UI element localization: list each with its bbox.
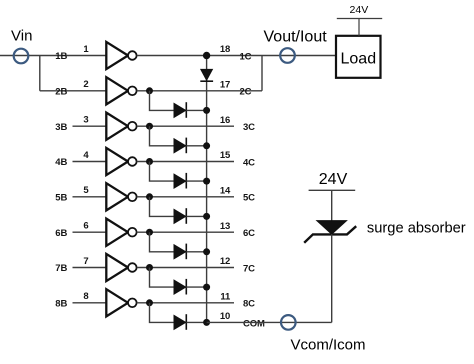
svg-text:8C: 8C — [243, 299, 255, 310]
svg-text:2: 2 — [83, 79, 88, 90]
wire COM bus vertical — [206, 56, 208, 323]
inverter buffer channel 1 triangle — [106, 42, 128, 69]
svg-text:COM: COM — [243, 319, 265, 330]
svg-text:1: 1 — [83, 44, 89, 55]
wire stub channel 8 down to clamp diode — [150, 303, 175, 323]
surge absorber TVS bar with bent ends — [304, 226, 356, 243]
junction dot channel 5 output — [146, 193, 153, 200]
svg-text:17: 17 — [220, 79, 230, 90]
svg-text:5: 5 — [83, 185, 89, 196]
inverter channel 4 output bubble — [128, 157, 137, 166]
wire diode D4 cathode to bus — [186, 180, 206, 182]
wire stub channel 3 down to clamp diode — [150, 126, 175, 146]
wire 8B input — [73, 302, 107, 304]
wire 24V rail to surge absorber — [331, 190, 333, 221]
wire 6C output row — [137, 231, 234, 233]
inverter buffer channel 4 triangle — [106, 148, 128, 175]
wire diode D5 cathode to bus — [186, 215, 206, 217]
wire 2C output row — [137, 90, 262, 92]
inverter buffer channel 5 triangle — [106, 183, 128, 210]
diode D6 clamp channel 6 — [174, 245, 186, 259]
inverter channel 5 output bubble — [128, 193, 137, 202]
junction dot diode D2 at COM bus — [203, 107, 210, 114]
junction dot diode D5 at COM bus — [203, 213, 210, 220]
junction dot channel 7 output — [146, 264, 153, 271]
junction dot diode D8 at COM bus — [203, 319, 210, 326]
svg-text:2C: 2C — [240, 87, 252, 98]
junction dot diode D7 at COM bus — [203, 284, 210, 291]
svg-text:3B: 3B — [55, 122, 67, 133]
svg-text:8B: 8B — [55, 298, 67, 309]
svg-text:4B: 4B — [55, 157, 67, 168]
inverter buffer channel 7 triangle — [106, 254, 128, 281]
surge absorber TVS triangle — [317, 221, 347, 235]
diode D4 clamp channel 4 — [174, 174, 186, 188]
svg-text:6: 6 — [83, 221, 88, 232]
svg-text:4: 4 — [83, 150, 89, 161]
wire stub channel 4 down to clamp diode — [150, 162, 175, 182]
svg-text:13: 13 — [220, 221, 230, 232]
svg-text:3C: 3C — [243, 122, 255, 133]
wire stub channel 6 down to clamp diode — [150, 232, 175, 252]
power rail 24V top bar — [337, 18, 382, 20]
svg-text:Vout/Iout: Vout/Iout — [264, 28, 328, 45]
svg-text:8: 8 — [83, 291, 88, 302]
svg-text:Vin: Vin — [11, 28, 32, 45]
wire Vin input to 1B — [0, 55, 107, 57]
wire diode D2 cathode to bus — [186, 109, 206, 111]
svg-text:5B: 5B — [55, 192, 67, 203]
junction dot channel 8 output — [146, 299, 153, 306]
svg-text:24V: 24V — [350, 4, 369, 16]
svg-text:18: 18 — [220, 44, 230, 55]
wire 5C output row — [137, 196, 234, 198]
diode D3 clamp channel 3 — [174, 139, 186, 153]
wire 3C output row — [137, 125, 234, 127]
junction dot channel 2 output — [146, 87, 153, 94]
svg-text:3: 3 — [83, 115, 88, 126]
wire 24V rail to load — [358, 19, 360, 36]
wire diode D8 cathode to bus — [186, 321, 206, 323]
svg-text:7: 7 — [83, 256, 88, 267]
junction dot diode D3 at COM bus — [203, 142, 210, 149]
svg-text:surge absorber: surge absorber — [367, 221, 466, 237]
junction dot diode D6 at COM bus — [203, 248, 210, 255]
svg-text:6B: 6B — [55, 228, 67, 239]
power rail 24V bottom bar — [309, 189, 356, 191]
diode D8 clamp channel 8 — [174, 315, 186, 329]
wire diode D7 cathode to bus — [186, 286, 206, 288]
svg-text:6C: 6C — [243, 228, 255, 239]
diode D7 clamp channel 7 — [174, 280, 186, 294]
junction dot channel 3 output — [146, 123, 153, 130]
svg-text:24V: 24V — [319, 171, 348, 188]
svg-text:11: 11 — [220, 291, 231, 302]
inverter buffer channel 8 triangle — [106, 289, 128, 316]
wire 4C output row — [137, 161, 234, 163]
wire 6B input — [73, 231, 107, 233]
inverter buffer channel 3 triangle — [106, 113, 128, 140]
junction dot channel 6 output — [146, 229, 153, 236]
inverter channel 7 output bubble — [128, 263, 137, 272]
node Vin terminal circle — [14, 49, 29, 64]
svg-text:4C: 4C — [243, 157, 255, 168]
inverter channel 3 output bubble — [128, 122, 137, 131]
diode D2 clamp channel 2 — [174, 103, 186, 117]
wire 5B input — [73, 196, 107, 198]
svg-text:7C: 7C — [243, 263, 255, 274]
svg-text:5C: 5C — [243, 193, 255, 204]
node Vcom terminal circle — [281, 315, 296, 330]
inverter buffer channel 6 triangle — [106, 219, 128, 246]
svg-text:16: 16 — [220, 115, 230, 126]
diode D5 clamp channel 5 — [174, 209, 186, 223]
svg-text:15: 15 — [220, 150, 231, 161]
wire diode D3 cathode to bus — [186, 145, 206, 147]
node Vout terminal circle — [280, 48, 295, 63]
wire stub channel 5 down to clamp diode — [150, 197, 175, 217]
junction dot channel 4 output — [146, 158, 153, 165]
svg-text:Load: Load — [341, 51, 377, 68]
wire 4B input — [73, 161, 107, 163]
load box — [336, 36, 381, 78]
wire diode D6 cathode to bus — [186, 251, 206, 253]
wire 8C output row — [137, 302, 234, 304]
wire COM row — [207, 321, 332, 323]
svg-text:1C: 1C — [240, 51, 252, 62]
wire connector 1C to 2C parallel outputs — [261, 56, 263, 91]
inverter channel 8 output bubble — [128, 299, 137, 308]
svg-text:Vcom/Icom: Vcom/Icom — [291, 336, 366, 353]
inverter channel 2 output bubble — [128, 87, 137, 96]
svg-text:2B: 2B — [55, 86, 67, 97]
inverter channel 1 output bubble — [128, 51, 137, 60]
wire 7C output row — [137, 267, 234, 269]
wire 3B input — [73, 125, 107, 127]
inverter buffer channel 2 triangle — [106, 77, 128, 104]
wire tee from Vin row down to 2B row — [39, 56, 41, 91]
junction dot channel 1 output at bus — [203, 52, 210, 59]
svg-text:12: 12 — [220, 256, 230, 267]
wire 7B input — [73, 267, 107, 269]
inverter channel 6 output bubble — [128, 228, 137, 237]
svg-text:7B: 7B — [55, 263, 67, 274]
svg-text:14: 14 — [220, 185, 231, 196]
junction dot diode D4 at COM bus — [203, 178, 210, 185]
wire 2B input — [40, 90, 107, 92]
wire 1C output row to load — [137, 55, 336, 57]
wire stub channel 2 down to clamp diode — [150, 91, 175, 111]
diode D1 clamp channel 1 (vertical) — [201, 69, 213, 80]
wire stub channel 7 down to clamp diode — [150, 268, 175, 288]
wire surge absorber to COM — [331, 234, 333, 322]
svg-text:10: 10 — [220, 311, 230, 322]
svg-text:1B: 1B — [55, 51, 67, 62]
